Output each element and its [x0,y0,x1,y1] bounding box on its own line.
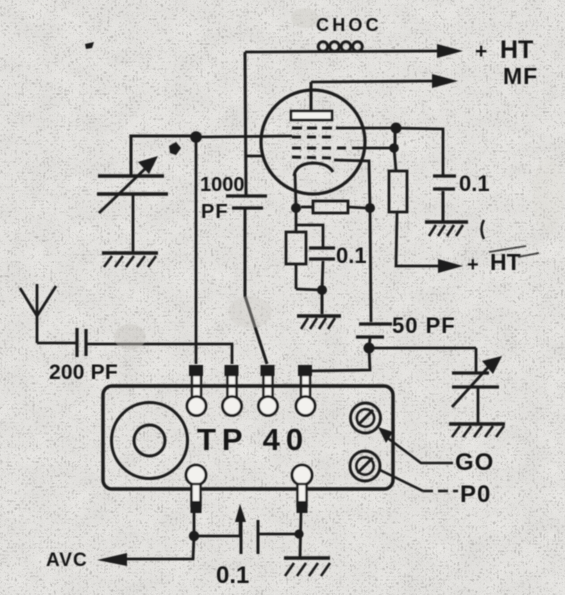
pin 1 bottom [186,465,206,513]
svg-text:1000: 1000 [200,174,245,196]
coil opening circle inner [134,425,165,456]
wire grid4 right corner down [334,160,370,208]
screw terminal GO [351,403,381,433]
capacitor C3 50PF [359,322,392,325]
node dot cathode [291,203,301,213]
svg-text:HT: HT [490,249,521,275]
tube grid row 2 dashes [292,136,334,139]
resistor R screen [394,148,396,171]
pin 1 top [187,365,206,416]
resistor R cathode-grid horizontal [301,206,313,209]
svg-text:HT: HT [500,36,533,64]
wire left junction to varcap [131,136,196,176]
wire 1000PF to pin3 [245,209,267,364]
node dot resistor right [365,203,375,213]
svg-text:PF: PF [201,201,229,223]
capacitor C decoupling 0.1 top right [433,174,456,177]
varcap CV1 arrow [99,166,148,213]
stray parenthesis right [482,220,485,239]
svg-text:P0: P0 [460,481,491,508]
wire 50PF node to right varcap [369,347,476,350]
wire antenna to 200PF [37,342,76,345]
screw terminal P0 [350,451,380,481]
wire grid1 down to pin1 [195,137,198,364]
wire HT supply line [245,51,440,52]
leader line GO [385,436,453,463]
coil opening circle outer [112,403,188,479]
wire grid1 to right [336,128,443,176]
antenna [20,284,56,343]
tube plate lead [310,82,313,111]
ground bottom [284,556,330,559]
stray ink blob near left varcap arrow [169,142,181,155]
pin 2 top [223,365,242,416]
capacitor C1 200PF [75,328,78,357]
node dot g3-line [389,143,399,153]
capacitor C 1000PF bottom plate [232,206,263,209]
node dot g1-line [391,123,402,134]
arrowhead +HT top [437,44,463,58]
stray mark top left [85,42,94,49]
ground right varcap [449,422,505,425]
tube V1 envelope [261,90,365,194]
smudge left of 200PF wire [114,324,146,350]
wire 50PF node to pin4 [306,348,370,371]
tube grid row 1 dashes [292,127,334,130]
ground top right [425,220,468,223]
svg-text:0.1: 0.1 [336,243,367,268]
node dot AVC junction [189,531,199,541]
wire 200PF to pin2 [87,344,232,364]
capacitor C 1000PF top plate [226,194,267,197]
wire grid4 left to 1000PF line [245,155,263,158]
svg-text:+: + [467,254,479,276]
svg-text:0.1: 0.1 [459,171,490,196]
arrowhead +HT lower [438,259,463,273]
svg-text:+: + [475,40,487,63]
coil block TP40 box [103,386,393,489]
pin 3 top [259,365,278,416]
wire junction to cap [194,535,240,538]
capacitor C4 right plate [257,520,260,554]
wire grid4 line down to 50PF [370,208,371,322]
capacitor C4 0.1 bottom left plate with arrow [240,514,243,554]
wire between dots [394,128,397,148]
wire grid3 to right dot [352,147,394,150]
cathode lead wire [295,174,296,208]
wire grid2 to left junction [196,136,292,137]
wire pin1 bottom down [193,512,196,536]
node dot pin2 bottom [294,529,303,538]
svg-text:TP 40: TP 40 [197,422,309,457]
wire AVC down-left [124,536,194,559]
pin 4 top [296,365,315,416]
ground left varcap [102,251,158,254]
wire 0.1 to ground [442,191,445,221]
wire to cathode ground [321,290,324,314]
choke L1 CHOC [318,42,328,52]
node dot 50PF [364,343,375,354]
variable capacitor CV1 left [98,174,164,177]
variable capacitor CV2 right [475,348,478,373]
wire MF output from plate [311,81,435,82]
leader line P0 [380,470,423,491]
arrowhead MF [432,74,458,88]
tube cathode [294,163,333,176]
varcap CV2 arrow [452,363,492,407]
stray line over lower HT [489,246,539,257]
arrowhead AVC [97,553,127,566]
tube plate [291,111,332,120]
pin 2 bottom [292,465,312,513]
svg-text:GO: GO [455,449,494,476]
tube grid row 3 dashes [292,147,352,150]
wire screen resistor to +HT lower [396,212,439,266]
tube grid row 4 dashes [292,157,332,158]
wire cap to pin2 bottom [258,533,299,536]
wire vertical from choke corner down to 1000PF [245,52,246,195]
wire bias to cap junction [296,289,322,290]
svg-text:CHOC: CHOC [316,15,382,35]
svg-text:AVC: AVC [46,550,88,571]
svg-text:0.1: 0.1 [216,562,249,589]
svg-text:MF: MF [503,63,538,89]
wire pin2 bottom to ground [300,512,301,557]
svg-text:50 PF: 50 PF [392,313,456,338]
node dot bias/cap [317,285,327,295]
capacitor C cathode 0.1 [296,225,323,247]
svg-text:200 PF: 200 PF [49,361,118,384]
resistor R bias vertical [295,208,298,232]
ground cathode [297,314,341,317]
node dot grid1 left [190,131,202,143]
